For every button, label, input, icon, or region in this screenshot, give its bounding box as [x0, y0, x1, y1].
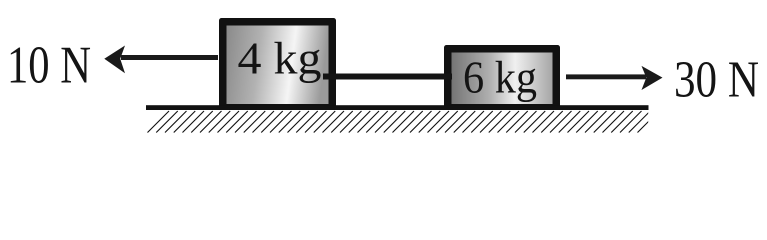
connecting rod between blocks — [323, 74, 452, 80]
svg-text:4 kg: 4 kg — [238, 33, 322, 84]
ground hatching — [148, 111, 660, 133]
block 4 kg body — [219, 18, 336, 110]
svg-text:6 kg: 6 kg — [463, 52, 537, 103]
force arrow 30 N (right) — [566, 66, 663, 90]
svg-text:10 N: 10 N — [7, 37, 91, 95]
ground line — [146, 105, 649, 110]
svg-text:30 N: 30 N — [674, 52, 759, 109]
block 6 kg body — [444, 45, 560, 110]
force arrow 10 N (left) — [104, 46, 218, 74]
